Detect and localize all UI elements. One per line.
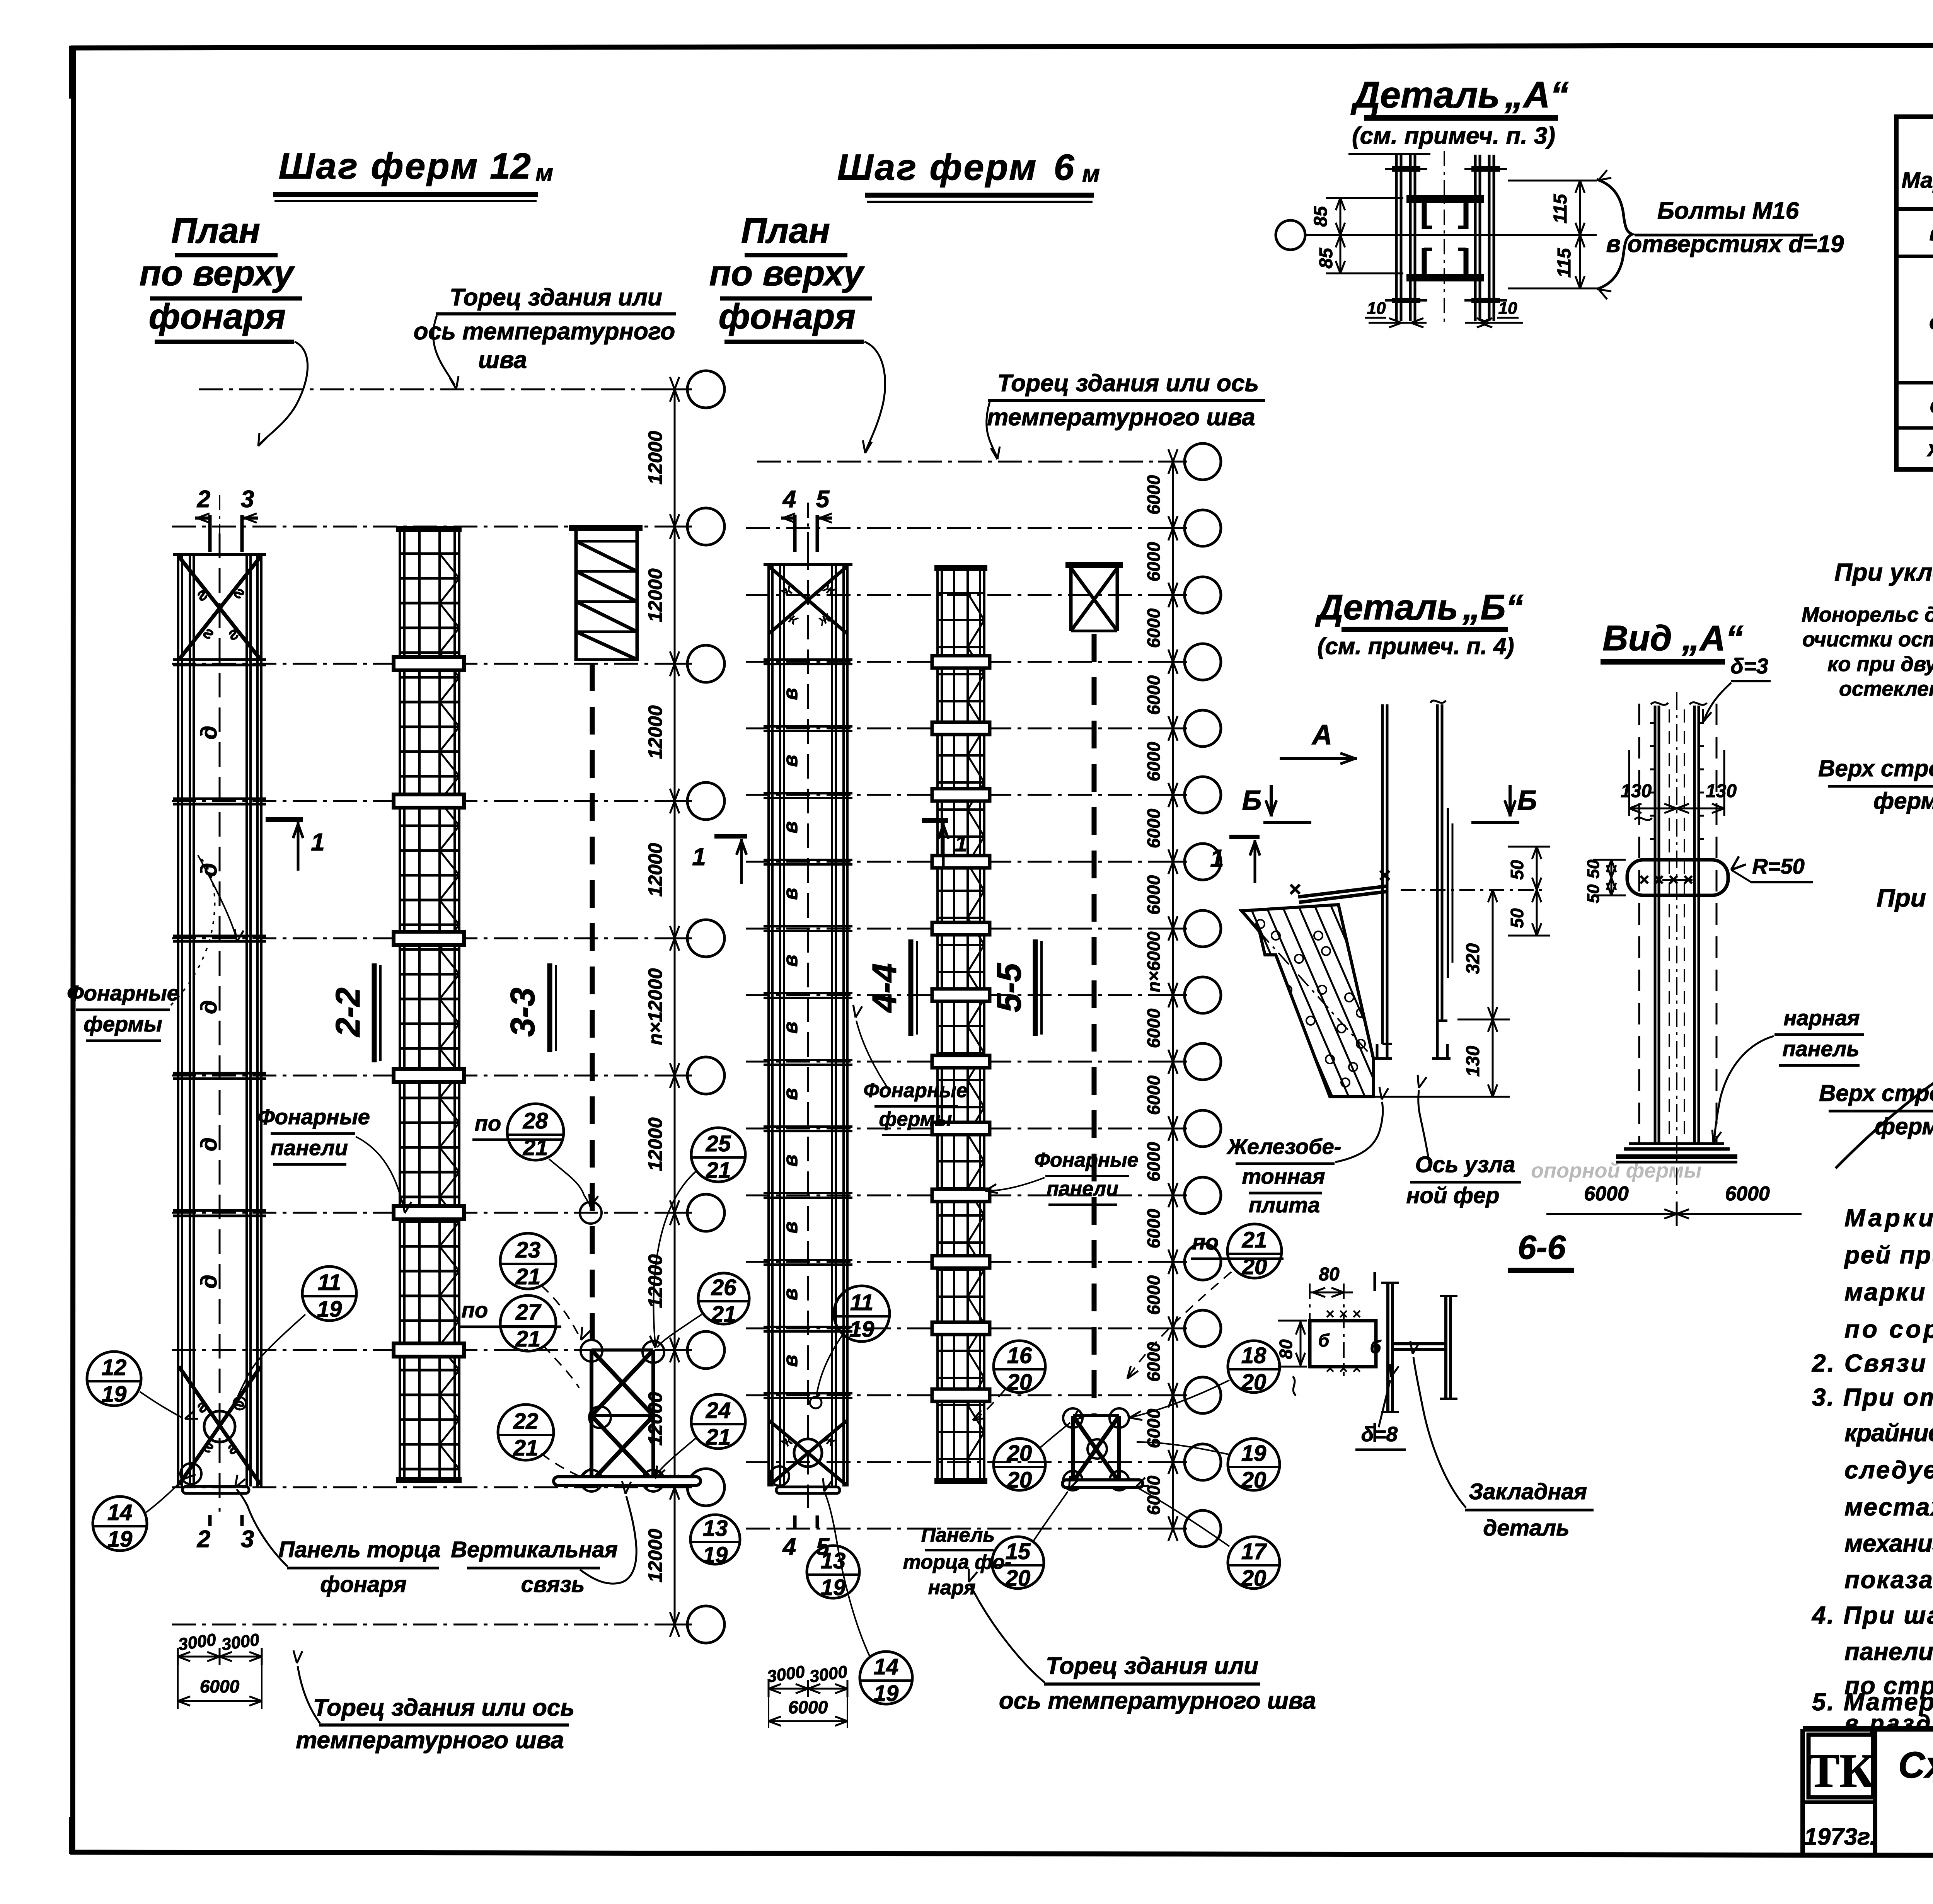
12m end truss top (vert. bracing) (569, 525, 643, 531)
detail A dim 115/115 (1579, 181, 1581, 288)
vid A tick marks on flanges (1650, 722, 1655, 724)
svg-text:3: 3 (241, 486, 254, 513)
leader curve (6m top) (987, 402, 997, 456)
leader закладная (1413, 1357, 1466, 1508)
marker circle 22/21 (498, 1405, 554, 1460)
svg-text:Вид: Вид (1602, 619, 1672, 658)
svg-text:× × ×: × × × (1326, 1306, 1361, 1323)
leader 16/20 (974, 1389, 1005, 1420)
svg-text:5: 5 (816, 486, 830, 513)
svg-text:12000: 12000 (644, 705, 666, 759)
svg-text:130: 130 (1706, 781, 1737, 801)
6m plan: axis circles (1185, 443, 1221, 480)
detail A right stud (1474, 155, 1477, 321)
marker circle 28/21 (507, 1104, 564, 1160)
svg-text:Болты М16: Болты М16 (1657, 198, 1799, 224)
svg-text:При уклонах кровли по стро: При уклонах кровли по стропильным фермам… (1834, 558, 1933, 586)
svg-text:фермы: фермы (1875, 1113, 1933, 1139)
svg-text:n×12000: n×12000 (644, 968, 666, 1045)
svg-text:в: в (779, 1088, 802, 1100)
svg-text:ж: ж (1927, 436, 1933, 461)
svg-text:80: 80 (1276, 1339, 1296, 1359)
detail B column feet (1372, 1044, 1392, 1059)
marker circle 11/19 (302, 1266, 356, 1321)
svg-text:фонаря: фонаря (320, 1572, 407, 1597)
leader 21/20 (1129, 1272, 1231, 1376)
6m strip bottom end panel X brace (769, 1421, 847, 1485)
12m lantern strip rails (177, 555, 179, 1486)
svg-text:6000: 6000 (1144, 875, 1164, 915)
svg-text:× × ×: × × × (1326, 1360, 1361, 1377)
svg-text:1973г.: 1973г. (1804, 1824, 1876, 1850)
svg-text:по: по (475, 1111, 501, 1135)
svg-text:в отверстиях d=19: в отверстиях d=19 (1606, 231, 1844, 257)
section mark 1 right of 12m strip (266, 817, 303, 822)
svg-text:19: 19 (703, 1543, 728, 1568)
svg-text:6000: 6000 (1144, 1142, 1164, 1181)
svg-text:торца фо-: торца фо- (903, 1551, 1011, 1573)
svg-text:тонная: тонная (1242, 1164, 1325, 1188)
svg-text:показаны в плане).: показаны в плане). (1844, 1566, 1933, 1594)
svg-text:ко при двухярусном: ко при двухярусном (1827, 653, 1933, 676)
svg-text:в: в (779, 1021, 802, 1033)
svg-text:24: 24 (706, 1398, 731, 1423)
svg-text:21: 21 (711, 1302, 736, 1327)
svg-text:д: д (196, 1000, 222, 1014)
svg-text:Торец здания или: Торец здания или (450, 284, 662, 311)
svg-text:температурного шва: температурного шва (987, 404, 1255, 431)
svg-text:фермы: фермы (879, 1108, 952, 1130)
marker circle 26/21 (698, 1273, 749, 1324)
leader 11/19 (6m) (816, 1335, 843, 1396)
12m strip top end panel X brace (179, 557, 261, 660)
marker circle 25/21 (691, 1128, 745, 1182)
6-6 I-beam left flange (1386, 1283, 1389, 1412)
svg-text:4-4: 4-4 (865, 963, 903, 1013)
svg-text:23: 23 (515, 1238, 541, 1263)
svg-text:панель: панель (1782, 1036, 1859, 1061)
svg-text:25: 25 (706, 1131, 731, 1156)
svg-text:20: 20 (1241, 1370, 1267, 1395)
svg-text:механизмов, как показано на: механизмов, как показано на детали „А“ (… (1844, 1529, 1933, 1557)
leader to vid A column (1714, 1036, 1774, 1140)
6m lattice column rungs (937, 592, 985, 594)
6m bottom vertical bracing truss (1071, 1416, 1075, 1484)
leader 14/19 (6m) (825, 1494, 870, 1657)
svg-text:Деталь: Деталь (1315, 588, 1458, 627)
svg-text:1: 1 (692, 843, 706, 871)
marker circle 13/19 (807, 1546, 859, 1598)
12m strip bottom bearing plate (182, 1486, 249, 1493)
svg-text:50: 50 (1584, 859, 1603, 878)
6m strip panel joint rungs (764, 658, 852, 661)
svg-text:ось температурного: ось температурного (414, 318, 675, 345)
svg-text:Фонарные: Фонарные (863, 1079, 967, 1102)
svg-text:6000: 6000 (1144, 1342, 1164, 1382)
svg-text:5-5: 5-5 (990, 963, 1028, 1012)
svg-text:6000: 6000 (1144, 1209, 1164, 1248)
svg-text:12: 12 (102, 1355, 127, 1380)
svg-text:6000: 6000 (1144, 1008, 1164, 1048)
leader 15/20 (1033, 1491, 1068, 1542)
6m plan: horizontal axis rows (757, 461, 1184, 463)
svg-text:6000: 6000 (1144, 741, 1164, 781)
svg-text:85: 85 (1311, 206, 1331, 227)
6m lattice column verticals (936, 568, 939, 1483)
6m strip centre dashed line (807, 545, 809, 1508)
detail B dim 320/130 (1492, 890, 1494, 1097)
vid A centre line (1676, 692, 1677, 1195)
svg-text:δ=3: δ=3 (1730, 654, 1768, 678)
leader 23/21 (541, 1285, 580, 1338)
svg-text:остеклении: остеклении (1839, 677, 1933, 701)
6m strip dimension 6000 (769, 1720, 847, 1722)
12m lattice column verticals (399, 529, 401, 1481)
svg-text:12000: 12000 (644, 1254, 666, 1308)
svg-text:21: 21 (523, 1135, 548, 1160)
svg-text:А: А (1311, 719, 1332, 750)
svg-text:очистки остекления толь-: очистки остекления толь- (1802, 628, 1933, 651)
detail B column break mark top (1430, 701, 1446, 703)
svg-text:6000: 6000 (1144, 675, 1164, 715)
12m plan: axis circles (687, 371, 724, 408)
svg-text:19: 19 (874, 1681, 899, 1706)
svg-text:связь: связь (521, 1572, 585, 1597)
svg-text:д: д (196, 1137, 222, 1151)
svg-text:85: 85 (1316, 247, 1336, 269)
svg-text:План: План (741, 211, 830, 251)
marker circle 18/20 (1228, 1341, 1280, 1393)
svg-text:3. При отсутствии механизмо: 3. При отсутствии механизмов открывания … (1812, 1383, 1933, 1411)
svg-text:в разделе V пояснительной: в разделе V пояснительной записки (1844, 1710, 1933, 1736)
svg-text:20: 20 (1241, 1566, 1267, 1591)
leader 11/19 to strip (238, 1314, 305, 1396)
marker circle 13/19 (690, 1515, 740, 1564)
svg-text:50: 50 (1584, 884, 1603, 903)
6m bracing bottom plate (1062, 1480, 1143, 1488)
node circles on bracing truss (581, 1340, 602, 1362)
svg-text:1: 1 (1210, 844, 1224, 872)
bracing bottom plate (554, 1477, 701, 1485)
12m strip bottom panel node circle (204, 1411, 235, 1442)
svg-text:115: 115 (1550, 193, 1571, 223)
marker circle 15/20 (992, 1537, 1044, 1589)
svg-text:1: 1 (955, 831, 967, 856)
svg-text:19: 19 (1241, 1441, 1267, 1466)
6m strip bottom bearing plate (776, 1487, 840, 1493)
svg-text:в: в (779, 1288, 802, 1300)
svg-text:по: по (462, 1298, 488, 1322)
svg-text:12000: 12000 (644, 1529, 666, 1582)
6m end panel X box top (1065, 562, 1123, 568)
svg-text:12000: 12000 (644, 843, 666, 897)
12m plan: horizontal axis rows (199, 389, 687, 390)
12m lattice splice plates (394, 657, 464, 670)
leader curve to axis (12m top) (433, 315, 455, 385)
leader фонарные фермы (6m) (856, 1021, 889, 1090)
svg-text:4: 4 (782, 486, 796, 513)
6-6 break squiggle (1293, 1376, 1296, 1396)
svg-text:План: План (171, 211, 260, 251)
svg-text:×: × (1379, 864, 1391, 887)
svg-text:Верх стропильной: Верх стропильной (1818, 755, 1933, 781)
svg-text:нарная: нарная (1783, 1006, 1860, 1030)
12m bottom vertical bracing truss (590, 1350, 593, 1483)
svg-text:×: × (1289, 878, 1301, 901)
svg-text:2. Связи крепить на болтах: 2. Связи крепить на болтах нормальной то… (1812, 1349, 1933, 1377)
svg-text:14: 14 (107, 1500, 133, 1525)
svg-text:6000: 6000 (1144, 1275, 1164, 1315)
svg-text:б: б (1318, 1330, 1330, 1350)
svg-text:27: 27 (515, 1300, 542, 1325)
leader 22/21 (541, 1454, 579, 1476)
svg-text:Монорельс для устройства: Монорельс для устройства (1802, 603, 1933, 626)
svg-text:R=50: R=50 (1752, 854, 1804, 878)
svg-text:м: м (535, 160, 553, 186)
svg-text:6000: 6000 (1144, 542, 1164, 581)
leader 19/20 (1137, 1442, 1229, 1454)
svg-text:Марка: Марка (1901, 168, 1933, 193)
svg-text:3: 3 (241, 1526, 254, 1553)
svg-text:20: 20 (1007, 1441, 1032, 1466)
svg-text:6000: 6000 (1725, 1183, 1770, 1205)
detail A centre line (1444, 151, 1445, 327)
leader 24/21 (655, 1438, 696, 1477)
marker circle 27/21 (500, 1295, 556, 1351)
svg-text:фонаря: фонаря (149, 297, 286, 336)
title block outer (1803, 1726, 1933, 1732)
marker circle 19/20 (1228, 1439, 1280, 1490)
svg-text:19: 19 (849, 1317, 874, 1342)
vid A bottom dim 6000/6000 (1546, 1213, 1802, 1215)
svg-text:130: 130 (1621, 781, 1652, 801)
svg-text:6000: 6000 (1144, 1075, 1164, 1115)
svg-text:При безраскосных: При безраскосных (1877, 883, 1933, 912)
svg-text:4: 4 (782, 1534, 796, 1560)
vid A column flanges (1654, 706, 1657, 1144)
12m strip dimension 6000 (178, 1700, 262, 1702)
svg-text:6-6: 6-6 (1518, 1229, 1566, 1266)
slab aggregate circles (1272, 931, 1280, 940)
svg-text:50: 50 (1507, 908, 1527, 928)
svg-text:19: 19 (107, 1527, 133, 1552)
marker circle 20/20 (994, 1439, 1045, 1490)
svg-text:11: 11 (850, 1290, 873, 1315)
vid A weld slot plate (1627, 860, 1728, 895)
slab hatching (1210, 889, 1522, 1121)
detail B dim 50/50 (1536, 847, 1538, 936)
svg-text:фермы: фермы (84, 1012, 162, 1036)
svg-text:6000: 6000 (1144, 808, 1164, 848)
leader 14/19 (146, 1481, 182, 1512)
svg-text:панели: панели (271, 1135, 348, 1160)
svg-text:е: е (1930, 393, 1933, 418)
svg-text:6000: 6000 (1144, 608, 1164, 648)
detail A upper channel section (1406, 195, 1484, 203)
vid A bottom flange plates (1629, 1142, 1724, 1145)
svg-text:в: в (779, 1154, 802, 1166)
svg-text:6000: 6000 (788, 1697, 828, 1717)
svg-text:Марки фонарных панелей и п: Марки фонарных панелей и панелей торцов … (1844, 1204, 1933, 1232)
svg-text:22: 22 (513, 1409, 539, 1434)
svg-text:(см. примеч. п. 4): (см. примеч. п. 4) (1318, 633, 1514, 659)
slab axis dash-dot (1239, 909, 1376, 1061)
detail B shelf plate (1298, 886, 1387, 897)
svg-text:17: 17 (1241, 1539, 1267, 1564)
leader вертикальная связь (580, 1496, 636, 1584)
12m lattice column rungs (400, 552, 459, 555)
svg-text:19: 19 (102, 1382, 127, 1407)
curved strop truss top (arc) (1836, 999, 1933, 1189)
svg-text:n×6000: n×6000 (1144, 931, 1164, 992)
svg-text:в: в (779, 688, 802, 700)
svg-text:28: 28 (523, 1108, 548, 1134)
svg-text:18: 18 (1241, 1343, 1267, 1368)
svg-text:21: 21 (706, 1158, 731, 1183)
svg-text:12000: 12000 (644, 1117, 666, 1171)
12m lattice top and bottom caps (396, 526, 462, 532)
svg-text:Фонарные: Фонарные (258, 1105, 370, 1129)
6m strip top end panel X brace (769, 567, 847, 633)
leader железобетонная (1335, 1102, 1383, 1162)
svg-text:Б: Б (1517, 785, 1537, 816)
svg-text:20: 20 (1007, 1468, 1032, 1493)
svg-text:б: б (1370, 1337, 1382, 1357)
12m strip centre dashed line (219, 534, 221, 1512)
svg-text:ось температурного шва: ось температурного шва (999, 1688, 1316, 1714)
svg-text:130: 130 (1463, 1046, 1483, 1077)
marker circle 14/19 (860, 1652, 912, 1704)
12m plan: vertical dimension line with 12000 labels (674, 389, 676, 1624)
svg-text:(см. примеч. п. 3): (см. примеч. п. 3) (1352, 123, 1555, 149)
6-6 I-beam web (1393, 1342, 1446, 1345)
svg-text:Шаг ферм: Шаг ферм (279, 146, 479, 187)
svg-text:Схемы конструкций фонаря: Схемы конструкций фонаря (1898, 1744, 1933, 1786)
svg-text:температурного шва: температурного шва (296, 1727, 564, 1754)
vid A outer dashed panel edges (1638, 704, 1640, 1144)
svg-text:панели: панели (1047, 1178, 1118, 1200)
svg-text:12: 12 (490, 146, 531, 187)
svg-text:„А“: „А“ (1504, 74, 1568, 116)
vid A break marks (1651, 702, 1668, 705)
marker circle 21/20 (1227, 1224, 1282, 1278)
12m strip bottom small node circle (181, 1463, 201, 1484)
svg-text:в: в (779, 955, 802, 966)
svg-text:20: 20 (1242, 1254, 1267, 1279)
svg-text:11: 11 (318, 1270, 341, 1295)
marker circle 14/19 (93, 1497, 147, 1551)
leader панель торца (237, 1489, 288, 1566)
svg-text:13: 13 (703, 1516, 728, 1541)
12m strip dimension 3000+3000 (178, 1656, 262, 1658)
svg-text:Панель: Панель (921, 1524, 995, 1546)
svg-text:6000: 6000 (200, 1676, 240, 1696)
leader from bracket (1599, 170, 1607, 180)
6m lattice diagonals (968, 593, 984, 620)
leader 26/21 (657, 1314, 702, 1347)
leader 20/20 (1040, 1423, 1070, 1448)
svg-text:Торец здания или ось: Торец здания или ось (313, 1694, 574, 1721)
svg-text:по: по (1192, 1230, 1219, 1254)
svg-text:20: 20 (1007, 1370, 1032, 1395)
6m plan: vertical dimension line with 6000 labels (1172, 462, 1174, 1529)
leader δ=8 (1379, 1380, 1390, 1427)
svg-text:4. При шаге ферм 12м сред: 4. При шаге ферм 12м среднюю стойку кажд… (1811, 1601, 1933, 1629)
section mark 1 right of 6m strip (922, 818, 948, 823)
svg-text:21: 21 (706, 1425, 731, 1450)
svg-text:„А“: „А“ (1682, 619, 1743, 658)
node circle on 12m dashed column (580, 1202, 602, 1224)
6m lattice splice plates (932, 656, 990, 668)
table outer frame (1896, 117, 1933, 469)
svg-text:Шаг ферм: Шаг ферм (837, 147, 1038, 188)
svg-text:26: 26 (711, 1275, 736, 1300)
svg-text:2: 2 (197, 486, 210, 513)
vid A web dashed lines (1669, 709, 1670, 1140)
leader фонарные панели (12m) (356, 1137, 404, 1210)
svg-text:19: 19 (821, 1575, 846, 1600)
svg-text:21: 21 (515, 1326, 541, 1352)
6m lantern strip rails (767, 565, 770, 1486)
leader 12/19 (140, 1392, 182, 1418)
svg-text:Верх стропильной: Верх стропильной (1819, 1080, 1933, 1106)
12m column heavy dashed line (590, 663, 595, 1348)
svg-text:фонаря: фонаря (719, 297, 856, 336)
svg-text:Панель торца: Панель торца (278, 1537, 440, 1562)
svg-text:в: в (779, 888, 802, 900)
6m strip dimension 3000 3000 (769, 1688, 847, 1690)
12m strip panel joint rungs (173, 658, 266, 661)
svg-text:„Б“: „Б“ (1462, 588, 1523, 627)
svg-text:панели приварить к железобе: панели приварить к железобетонной плите … (1844, 1638, 1933, 1665)
leader фонарные панели (6m) (988, 1178, 1045, 1191)
svg-text:14: 14 (874, 1654, 899, 1679)
svg-text:10: 10 (1367, 299, 1386, 318)
svg-text:6000: 6000 (1144, 475, 1164, 515)
svg-text:д: д (196, 726, 222, 740)
svg-text:12000: 12000 (644, 568, 666, 622)
svg-text:крайние стойки смежных фона: крайние стойки смежных фонарных панелей (1844, 1419, 1933, 1447)
svg-text:Торец здания или: Торец здания или (1046, 1653, 1258, 1679)
svg-text:80: 80 (1319, 1264, 1340, 1285)
title block TK cell (1803, 1800, 1875, 1804)
svg-text:6000: 6000 (1584, 1183, 1629, 1205)
detail A left stud (1395, 155, 1398, 321)
svg-text:фермы: фермы (1873, 788, 1933, 814)
vid A dim 50/50 left (1611, 860, 1613, 895)
svg-text:д: д (196, 1275, 222, 1289)
6-6 I-beam right flange (1444, 1296, 1447, 1399)
svg-text:Закладная: Закладная (1469, 1479, 1587, 1504)
leader 25/21 (654, 1171, 696, 1345)
12m lattice column diagonal zigzag (440, 554, 459, 578)
svg-text:плита: плита (1249, 1193, 1320, 1217)
vertical bar left of 6-6 (1374, 1272, 1376, 1291)
marker circle 11/19 (834, 1286, 890, 1341)
svg-text:Деталь: Деталь (1350, 74, 1500, 116)
svg-text:по верху: по верху (709, 254, 865, 293)
leader 27/21 (543, 1345, 579, 1388)
svg-text:Железобе-: Железобе- (1226, 1134, 1342, 1159)
svg-text:1: 1 (311, 828, 325, 856)
svg-text:следует соединять друг с д: следует соединять друг с другом планками… (1844, 1456, 1933, 1484)
svg-text:д: д (1929, 309, 1933, 334)
svg-text:Фонарные: Фонарные (1034, 1149, 1138, 1171)
svg-text:в: в (779, 755, 802, 767)
marker circle 23/21 (500, 1233, 556, 1289)
svg-text:3-3: 3-3 (503, 987, 542, 1036)
marker circle 24/21 (691, 1394, 745, 1449)
